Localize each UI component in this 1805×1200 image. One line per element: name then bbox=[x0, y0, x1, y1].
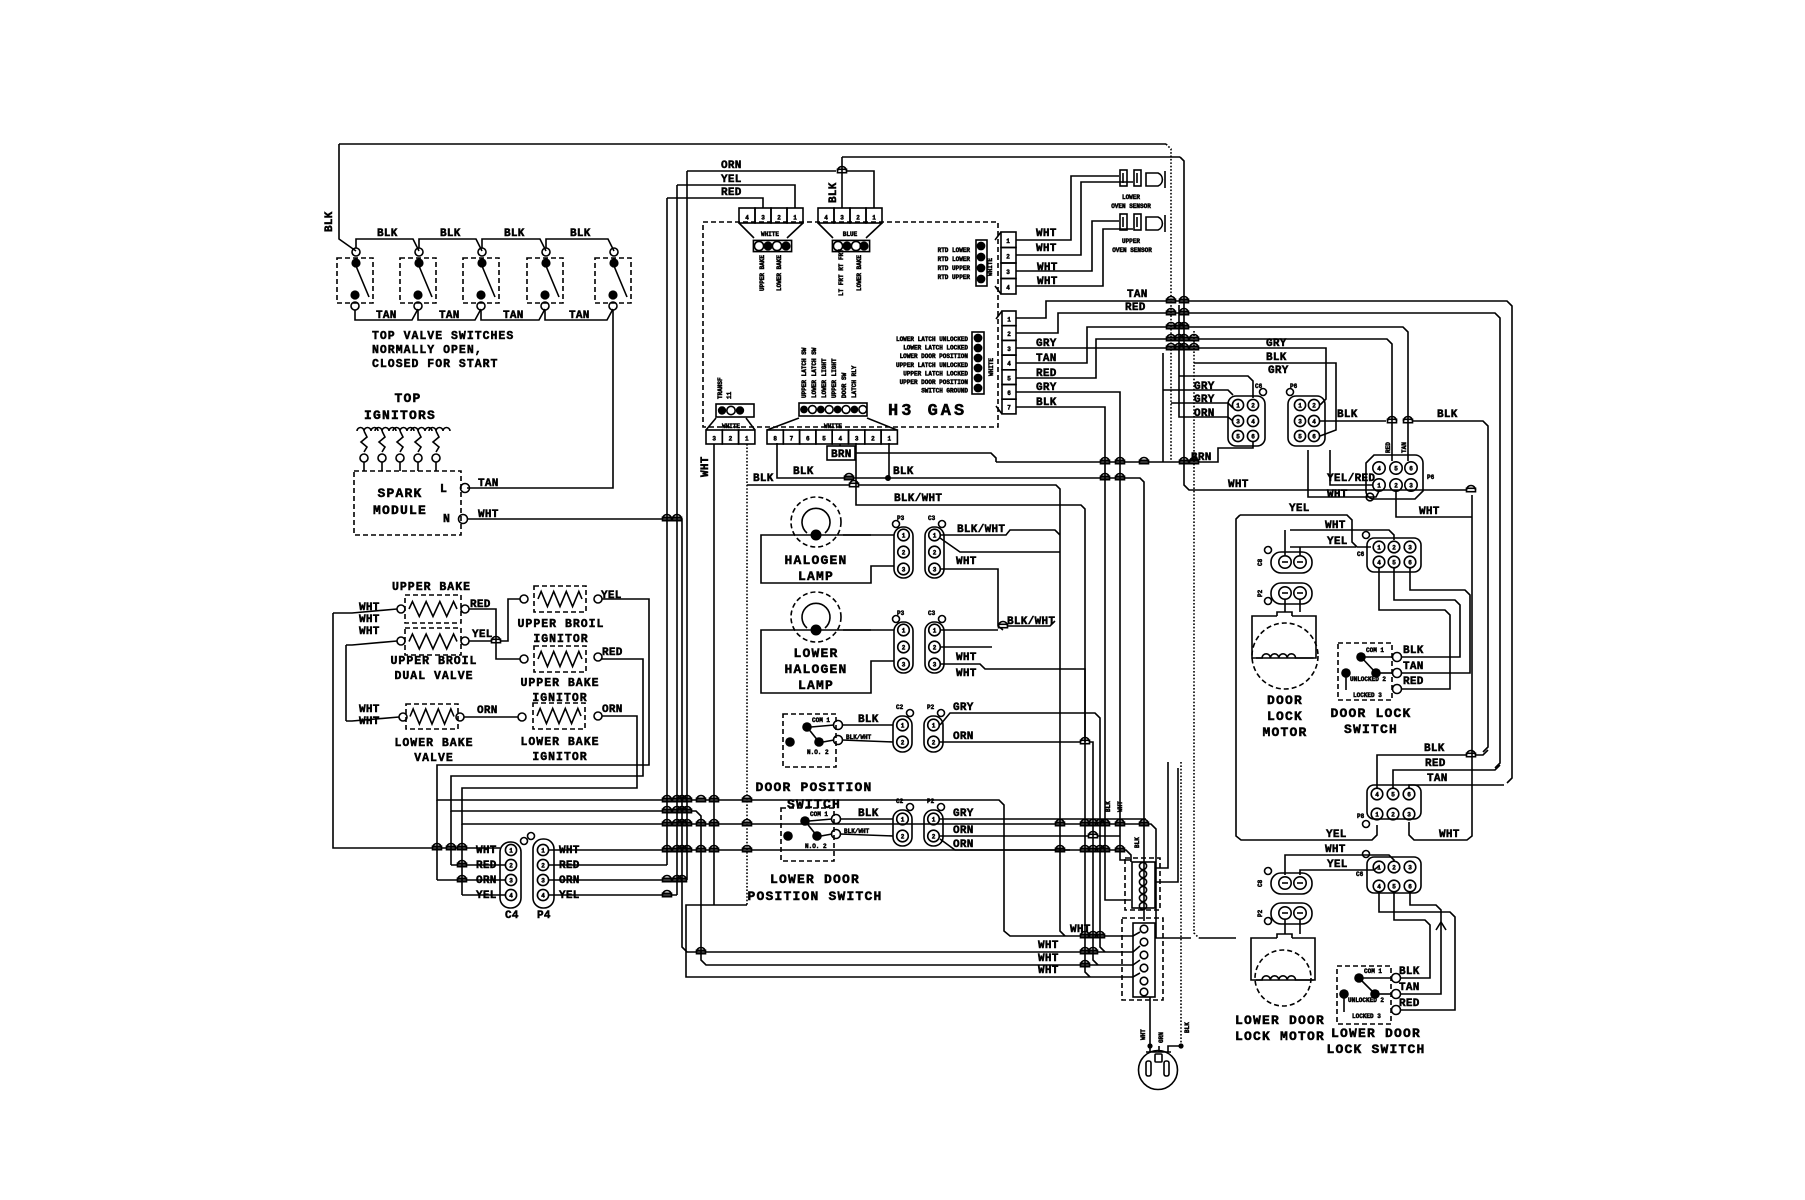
door lock motor bbox=[1252, 616, 1316, 658]
svg-text:WHT: WHT bbox=[956, 652, 977, 664]
svg-text:UPPER LATCH LOCKED: UPPER LATCH LOCKED bbox=[903, 370, 968, 377]
svg-text:RED: RED bbox=[1403, 676, 1424, 688]
svg-text:TAN: TAN bbox=[1401, 442, 1408, 453]
svg-text:OVEN SENSOR: OVEN SENSOR bbox=[1112, 247, 1152, 254]
svg-text:3: 3 bbox=[761, 215, 765, 222]
wire row WHT from P4 to right bbox=[549, 850, 1131, 862]
svg-text:6: 6 bbox=[1408, 560, 1412, 567]
svg-text:TAN: TAN bbox=[376, 310, 397, 322]
svg-text:5: 5 bbox=[1391, 792, 1395, 799]
svg-text:WHT: WHT bbox=[359, 716, 380, 728]
svg-text:RED: RED bbox=[559, 860, 580, 872]
wire BLK from WHITE8 pin8 bbox=[777, 443, 1144, 921]
svg-text:5: 5 bbox=[1394, 466, 1398, 473]
svg-text:C6: C6 bbox=[1255, 383, 1263, 390]
svg-text:BLK: BLK bbox=[1134, 837, 1141, 848]
svg-text:4: 4 bbox=[1251, 419, 1255, 426]
svg-text:BLK/WHT: BLK/WHT bbox=[846, 734, 872, 741]
svg-text:3: 3 bbox=[902, 567, 906, 574]
svg-text:RED: RED bbox=[602, 647, 623, 659]
svg-text:VALVE: VALVE bbox=[414, 752, 454, 765]
wire C3 pin1 to lower branch bbox=[940, 538, 1060, 552]
svg-text:WHITE: WHITE bbox=[761, 231, 779, 238]
svg-text:3: 3 bbox=[541, 878, 545, 885]
wire C3 lower pin1 BLK/WHT bbox=[940, 629, 998, 631]
svg-text:LAMP: LAMP bbox=[798, 569, 834, 584]
svg-text:YEL/RED: YEL/RED bbox=[1327, 473, 1375, 485]
svg-text:4: 4 bbox=[1377, 560, 1381, 567]
svg-text:BLK: BLK bbox=[1105, 801, 1112, 812]
svg-text:LOWER BAKE: LOWER BAKE bbox=[394, 737, 473, 750]
svg-text:UPPER DOOR POSITION: UPPER DOOR POSITION bbox=[900, 379, 969, 386]
wire WHT sensor 3 bbox=[1016, 221, 1119, 271]
svg-text:WHT: WHT bbox=[956, 556, 977, 568]
wire row YEL to C4 bbox=[462, 894, 505, 896]
svg-text:ORN: ORN bbox=[953, 731, 974, 743]
svg-text:2: 2 bbox=[933, 645, 937, 652]
svg-text:YEL: YEL bbox=[1326, 829, 1347, 841]
lower bake ignitor (resistor) bbox=[533, 703, 585, 729]
svg-text:RED: RED bbox=[1036, 368, 1057, 380]
wire WHT to lower bake valve bbox=[346, 717, 399, 721]
svg-text:YEL: YEL bbox=[1327, 859, 1348, 871]
wire RED vertical bus x667 bbox=[666, 198, 668, 865]
svg-text:TAN: TAN bbox=[1399, 982, 1420, 994]
svg-text:3: 3 bbox=[1236, 419, 1240, 426]
svg-text:UNLOCKED 2: UNLOCKED 2 bbox=[1350, 676, 1386, 683]
svg-text:1: 1 bbox=[1298, 403, 1302, 410]
wire TAN between switches bbox=[355, 309, 418, 320]
svg-text:2: 2 bbox=[1394, 483, 1398, 490]
svg-text:1: 1 bbox=[901, 723, 905, 730]
svg-text:GRY: GRY bbox=[953, 702, 974, 714]
svg-text:4: 4 bbox=[541, 893, 545, 900]
connector WHITE 8-pin bbox=[799, 403, 867, 416]
svg-text:C6: C6 bbox=[1357, 551, 1365, 558]
svg-text:HALOGEN: HALOGEN bbox=[784, 553, 847, 568]
valve switch S4 bbox=[527, 258, 563, 303]
svg-text:1: 1 bbox=[1377, 545, 1381, 552]
door lock switch box bbox=[1338, 643, 1392, 700]
lower halogen lamp symbol bbox=[791, 592, 841, 642]
wire GRY from lower P2 pin1 bbox=[940, 818, 1146, 820]
svg-text:UPPER BAKE: UPPER BAKE bbox=[520, 677, 599, 690]
svg-text:H3 GAS: H3 GAS bbox=[888, 402, 967, 421]
svg-text:2: 2 bbox=[901, 834, 905, 841]
svg-text:2: 2 bbox=[777, 215, 781, 222]
wire WHT sensor 4 bbox=[1016, 229, 1133, 286]
wire top border BLK bbox=[339, 143, 1166, 145]
wire TAN row to P8 bbox=[1409, 785, 1504, 788]
wire row RED from P4 to right bbox=[549, 864, 667, 866]
wire BLK between switches bbox=[419, 239, 482, 251]
svg-text:2: 2 bbox=[541, 863, 545, 870]
svg-text:2: 2 bbox=[901, 740, 905, 747]
connector P4 right section bbox=[1288, 396, 1325, 446]
svg-text:3: 3 bbox=[1408, 545, 1412, 552]
svg-text:1: 1 bbox=[745, 436, 749, 443]
wire BLK from P4 to right bbox=[1320, 420, 1386, 422]
svg-text:IGNITORS: IGNITORS bbox=[364, 408, 436, 423]
spark module box bbox=[354, 471, 461, 535]
svg-text:5: 5 bbox=[1392, 884, 1396, 891]
svg-text:COM 1: COM 1 bbox=[1366, 647, 1384, 654]
svg-text:LOWER DOOR: LOWER DOOR bbox=[1331, 1026, 1421, 1041]
svg-text:N.O. 2: N.O. 2 bbox=[807, 749, 829, 756]
svg-text:WHT: WHT bbox=[956, 668, 977, 680]
svg-text:1: 1 bbox=[1377, 865, 1381, 872]
connector P2 upper bbox=[924, 716, 943, 752]
wire ORN lower bake valve to lower bake ignitor bbox=[464, 716, 518, 718]
svg-text:WHITE: WHITE bbox=[722, 423, 740, 430]
svg-text:6: 6 bbox=[806, 436, 810, 443]
wire lower C6 pin4 to BLK terminal bbox=[1394, 893, 1430, 978]
label BRN box bbox=[827, 446, 855, 460]
svg-text:2: 2 bbox=[871, 436, 875, 443]
svg-text:P2: P2 bbox=[927, 798, 935, 805]
svg-text:ORN: ORN bbox=[602, 704, 623, 716]
svg-text:POSITION SWITCH: POSITION SWITCH bbox=[747, 889, 882, 904]
upper oven sensor bbox=[1120, 214, 1127, 230]
svg-text:WHT: WHT bbox=[1038, 965, 1059, 977]
svg-text:ORN: ORN bbox=[476, 875, 497, 887]
svg-text:6: 6 bbox=[1407, 792, 1411, 799]
valve switch S1 bbox=[337, 258, 373, 303]
connector C8 bbox=[1271, 552, 1312, 573]
svg-text:BLK: BLK bbox=[858, 808, 879, 820]
svg-text:WHITE: WHITE bbox=[988, 358, 995, 376]
svg-text:1: 1 bbox=[902, 628, 906, 635]
wire BLK between switches bbox=[482, 239, 546, 251]
wire hop arrow junction bbox=[1436, 922, 1446, 930]
svg-text:DOOR SW: DOOR SW bbox=[841, 372, 848, 398]
svg-text:1: 1 bbox=[902, 533, 906, 540]
wire GRN plug bbox=[1158, 1046, 1160, 1052]
svg-text:1: 1 bbox=[901, 817, 905, 824]
wire ORN loop ignitor to lower rows bbox=[462, 716, 1191, 938]
connector P2 bbox=[1271, 583, 1312, 604]
svg-text:5: 5 bbox=[1298, 434, 1302, 441]
svg-text:ORN: ORN bbox=[559, 875, 580, 887]
wire GRY into P4 pin1 bbox=[1270, 348, 1326, 405]
wire BLK from WHITE3 pin1 bbox=[747, 484, 849, 486]
wire WHT from spark module N bbox=[468, 519, 1140, 952]
svg-text:BLK: BLK bbox=[1403, 645, 1424, 657]
svg-text:GRY: GRY bbox=[1194, 381, 1215, 393]
wire WHT to C6 pin2 bbox=[1290, 530, 1394, 540]
svg-text:1: 1 bbox=[509, 848, 513, 855]
svg-text:LOWER: LOWER bbox=[793, 646, 838, 661]
svg-text:BLK: BLK bbox=[1184, 1022, 1191, 1033]
wire BLK from pin7 bbox=[1016, 407, 1131, 900]
svg-text:SWITCH GROUND: SWITCH GROUND bbox=[921, 388, 968, 395]
wire WHT into P8 pin3 bbox=[1409, 822, 1472, 840]
top ignitor 2 bbox=[375, 428, 396, 432]
top ignitor 1 bbox=[357, 428, 378, 432]
wire BLK to C2 bbox=[842, 724, 893, 726]
svg-text:LOCK SWITCH: LOCK SWITCH bbox=[1326, 1042, 1425, 1057]
svg-text:DUAL VALVE: DUAL VALVE bbox=[394, 670, 473, 683]
svg-text:IGNITOR: IGNITOR bbox=[532, 751, 587, 764]
wire x1196 bottom jog bbox=[1199, 937, 1236, 939]
svg-text:1: 1 bbox=[541, 848, 545, 855]
svg-text:TAN: TAN bbox=[1427, 773, 1448, 785]
wire RED top bbox=[667, 198, 763, 208]
svg-text:LOWER BAKE: LOWER BAKE bbox=[856, 255, 863, 291]
wire ORN lower branch bbox=[940, 839, 1070, 850]
svg-text:WHT: WHT bbox=[476, 845, 497, 857]
svg-text:5: 5 bbox=[1007, 375, 1011, 382]
svg-text:1: 1 bbox=[887, 436, 891, 443]
svg-text:ORN: ORN bbox=[721, 160, 742, 172]
svg-text:WHT: WHT bbox=[700, 456, 712, 477]
svg-text:P2: P2 bbox=[1257, 589, 1264, 597]
connector P8 bbox=[1367, 785, 1421, 819]
svg-text:5: 5 bbox=[1236, 434, 1240, 441]
svg-text:3: 3 bbox=[840, 215, 844, 222]
wire RED from pin5 bbox=[1016, 339, 1392, 461]
svg-text:YEL: YEL bbox=[721, 174, 742, 186]
valve switch S3 bbox=[463, 258, 499, 303]
svg-text:P3: P3 bbox=[897, 610, 905, 617]
svg-text:3: 3 bbox=[1408, 865, 1412, 872]
svg-text:WHT: WHT bbox=[359, 626, 380, 638]
svg-text:BLK/WHT: BLK/WHT bbox=[844, 828, 870, 835]
wire ORN from lower P2 pin2 bbox=[940, 835, 1088, 837]
svg-text:C3: C3 bbox=[928, 515, 936, 522]
svg-text:LOWER BAKE: LOWER BAKE bbox=[776, 255, 783, 291]
svg-text:2: 2 bbox=[509, 863, 513, 870]
upper broil valve (resistor) bbox=[405, 628, 461, 655]
svg-text:WHT: WHT bbox=[1325, 844, 1346, 856]
svg-text:C2: C2 bbox=[896, 798, 904, 805]
svg-text:GRY: GRY bbox=[1268, 365, 1289, 377]
svg-text:LOCK: LOCK bbox=[1267, 709, 1303, 724]
upper halogen lamp symbol bbox=[791, 497, 841, 547]
wire BRN from pin5 bbox=[839, 444, 841, 446]
svg-text:HALOGEN: HALOGEN bbox=[784, 662, 847, 677]
wire YEL/RED into P6 pin1 bbox=[1330, 450, 1373, 485]
connector C2 upper bbox=[893, 716, 912, 752]
top ignitor 5 bbox=[429, 428, 450, 432]
svg-text:P3: P3 bbox=[897, 515, 905, 522]
connector BLUE 4-pin bbox=[818, 208, 834, 223]
svg-text:P8: P8 bbox=[1357, 813, 1365, 820]
wire C3 lower pin3 WHT bbox=[940, 646, 992, 648]
svg-text:IGNITOR: IGNITOR bbox=[533, 633, 588, 646]
svg-text:2: 2 bbox=[932, 740, 936, 747]
connector C3 lower bbox=[925, 622, 944, 673]
wire ORN vertical bus x687 bbox=[686, 171, 688, 880]
lower oven sensor bbox=[1120, 170, 1127, 186]
svg-text:ORN: ORN bbox=[953, 825, 974, 837]
svg-text:4: 4 bbox=[745, 215, 749, 222]
connector P3 lower bbox=[894, 622, 913, 673]
wire C8 to YEL line bbox=[1299, 547, 1301, 555]
svg-text:WHT: WHT bbox=[1038, 953, 1059, 965]
svg-text:SWITCH: SWITCH bbox=[787, 797, 841, 812]
svg-text:C4: C4 bbox=[505, 910, 519, 922]
lower door lock motor bbox=[1251, 938, 1315, 980]
svg-text:5: 5 bbox=[1392, 560, 1396, 567]
svg-text:4: 4 bbox=[1006, 285, 1010, 292]
wire YEL top bbox=[677, 185, 795, 208]
svg-text:TAN: TAN bbox=[503, 310, 524, 322]
svg-text:4: 4 bbox=[1007, 361, 1011, 368]
svg-text:3: 3 bbox=[1409, 483, 1413, 490]
svg-text:1: 1 bbox=[1375, 812, 1379, 819]
svg-text:YEL: YEL bbox=[1289, 503, 1310, 515]
svg-text:C8: C8 bbox=[1257, 558, 1264, 566]
svg-text:WHT: WHT bbox=[1325, 520, 1346, 532]
wire BLK drop to valve switches bbox=[339, 144, 356, 251]
lower 6-pin connector block bbox=[1122, 918, 1163, 1000]
wire WHT into P6 pin1 lower bbox=[1308, 450, 1379, 497]
svg-text:RTD UPPER: RTD UPPER bbox=[938, 265, 971, 272]
wire BRN long to C6 bbox=[996, 442, 1253, 462]
wire GRY from P2 pin1 bbox=[940, 713, 1105, 952]
svg-text:UNLOCKED 2: UNLOCKED 2 bbox=[1348, 997, 1384, 1004]
top ignitor 3 bbox=[393, 428, 414, 432]
svg-text:LT FRT RT FRT: LT FRT RT FRT bbox=[838, 249, 845, 296]
svg-text:2: 2 bbox=[902, 550, 906, 557]
svg-text:TAN: TAN bbox=[1127, 289, 1148, 301]
svg-text:3: 3 bbox=[1298, 419, 1302, 426]
connector P6 bbox=[1366, 455, 1423, 499]
wire RED upper bake valve to upper bake ignitor bbox=[469, 609, 520, 659]
wire WHT from P6 pin2 down bbox=[1396, 491, 1472, 517]
svg-text:WHT: WHT bbox=[1117, 801, 1124, 812]
svg-text:6: 6 bbox=[1251, 434, 1255, 441]
svg-text:GRY: GRY bbox=[953, 808, 974, 820]
svg-text:RED: RED bbox=[1425, 758, 1446, 770]
svg-text:3: 3 bbox=[902, 662, 906, 669]
svg-text:3: 3 bbox=[933, 662, 937, 669]
svg-text:GRN: GRN bbox=[1158, 1032, 1165, 1043]
connector C6 door lock upper bbox=[1367, 538, 1421, 572]
wire YEL to lower C6 pin1 bbox=[1300, 866, 1379, 875]
svg-text:3: 3 bbox=[1006, 269, 1010, 276]
svg-text:LOWER DOOR POSITION: LOWER DOOR POSITION bbox=[900, 353, 969, 360]
svg-text:LOWER DOOR: LOWER DOOR bbox=[770, 872, 860, 887]
svg-text:LATCH RLY: LATCH RLY bbox=[851, 365, 858, 398]
svg-text:GRY: GRY bbox=[1194, 394, 1215, 406]
connector P2 lower bbox=[924, 810, 943, 846]
connector C6 right section bbox=[1228, 396, 1265, 446]
wire WHT to lower C6 pin2 bbox=[1285, 855, 1394, 875]
valve switch S2 bbox=[400, 258, 436, 303]
wire YEL vertical bus x677 bbox=[676, 185, 678, 895]
svg-text:4: 4 bbox=[1377, 466, 1381, 473]
wire WHT vertical x346 bbox=[345, 645, 347, 721]
svg-text:BLK: BLK bbox=[753, 473, 774, 485]
wire row ORN from P4 to right bbox=[549, 879, 687, 881]
svg-text:2: 2 bbox=[729, 436, 733, 443]
svg-text:C3: C3 bbox=[928, 610, 936, 617]
svg-text:2: 2 bbox=[856, 215, 860, 222]
connector C6 lower right bbox=[1367, 857, 1421, 893]
svg-text:LOCK MOTOR: LOCK MOTOR bbox=[1235, 1029, 1325, 1044]
svg-text:BLK: BLK bbox=[828, 182, 840, 203]
svg-text:RTD UPPER: RTD UPPER bbox=[938, 274, 971, 281]
connector C8 lower bbox=[1271, 873, 1312, 894]
svg-text:WHT: WHT bbox=[1037, 262, 1058, 274]
border line second drop x1184 to WHT wire bbox=[1180, 157, 1466, 490]
wire TAN between switches bbox=[545, 309, 613, 320]
svg-text:7: 7 bbox=[790, 436, 794, 443]
svg-text:11: 11 bbox=[726, 391, 733, 399]
wire TAN between switches bbox=[481, 309, 545, 320]
svg-text:TAN: TAN bbox=[1036, 353, 1057, 365]
svg-text:TAN: TAN bbox=[1403, 661, 1424, 673]
svg-text:1: 1 bbox=[872, 215, 876, 222]
svg-text:RED: RED bbox=[476, 860, 497, 872]
wire BLK row to P8 bbox=[1377, 755, 1466, 788]
svg-text:BLK: BLK bbox=[1266, 352, 1287, 364]
svg-text:C6: C6 bbox=[1356, 871, 1364, 878]
upper broil ignitor (resistor) bbox=[534, 586, 586, 612]
svg-text:LOCKED 3: LOCKED 3 bbox=[1353, 692, 1382, 699]
wire YEL outer loop bbox=[1236, 515, 1377, 840]
svg-text:N.O. 2: N.O. 2 bbox=[805, 843, 827, 850]
svg-text:DOOR: DOOR bbox=[1267, 693, 1303, 708]
wire lamp to P3 pin1 bbox=[843, 534, 894, 536]
svg-text:8: 8 bbox=[773, 436, 777, 443]
svg-text:TOP VALVE SWITCHES: TOP VALVE SWITCHES bbox=[372, 330, 514, 343]
wire ORN top bbox=[687, 170, 836, 172]
svg-text:3: 3 bbox=[855, 436, 859, 443]
svg-text:BLK/WHT: BLK/WHT bbox=[957, 524, 1005, 536]
valve switch S5 bbox=[595, 258, 631, 303]
svg-text:LOWER LATCH LOCKED: LOWER LATCH LOCKED bbox=[903, 345, 968, 352]
svg-text:CLOSED FOR START: CLOSED FOR START bbox=[372, 358, 498, 371]
wire RED loop ignitor to lower rows bbox=[451, 659, 1140, 965]
svg-text:LOWER LIGHT: LOWER LIGHT bbox=[821, 358, 828, 398]
svg-text:P6: P6 bbox=[1290, 383, 1298, 390]
svg-text:4: 4 bbox=[839, 436, 843, 443]
svg-text:4: 4 bbox=[1377, 884, 1381, 891]
svg-text:UPPER BROIL: UPPER BROIL bbox=[518, 618, 605, 631]
svg-text:COM 1: COM 1 bbox=[810, 811, 828, 818]
svg-text:DOOR LOCK: DOOR LOCK bbox=[1330, 706, 1411, 721]
svg-text:2: 2 bbox=[1007, 331, 1011, 338]
svg-text:BLK: BLK bbox=[793, 466, 814, 478]
svg-text:6: 6 bbox=[1409, 466, 1413, 473]
svg-text:6: 6 bbox=[1312, 434, 1316, 441]
svg-text:DOOR POSITION: DOOR POSITION bbox=[755, 780, 872, 795]
svg-text:BLK: BLK bbox=[1036, 397, 1057, 409]
svg-text:YEL: YEL bbox=[476, 890, 497, 902]
svg-text:WHT: WHT bbox=[1036, 243, 1057, 255]
svg-text:WHT: WHT bbox=[1439, 829, 1460, 841]
wire C6 pin5 to TAN terminal bbox=[1402, 568, 1470, 673]
wire WHT vertical x747 transformer bbox=[746, 444, 748, 905]
wires lower P2 to motor bbox=[1284, 919, 1286, 934]
wire WHT row4 path bbox=[686, 905, 1140, 977]
svg-text:2: 2 bbox=[902, 645, 906, 652]
connector strip 4-pin right of H3 bbox=[1001, 232, 1016, 248]
svg-text:3: 3 bbox=[1407, 812, 1411, 819]
door position switch bbox=[783, 714, 836, 767]
svg-text:LOWER DOOR: LOWER DOOR bbox=[1235, 1013, 1325, 1028]
svg-text:WHITE: WHITE bbox=[987, 258, 994, 276]
svg-text:1: 1 bbox=[1236, 403, 1240, 410]
svg-text:4: 4 bbox=[1312, 419, 1316, 426]
svg-text:RED: RED bbox=[721, 187, 742, 199]
svg-text:TAN: TAN bbox=[478, 478, 499, 490]
upper bake ignitor (resistor) bbox=[534, 646, 586, 672]
svg-text:2: 2 bbox=[1251, 403, 1255, 410]
